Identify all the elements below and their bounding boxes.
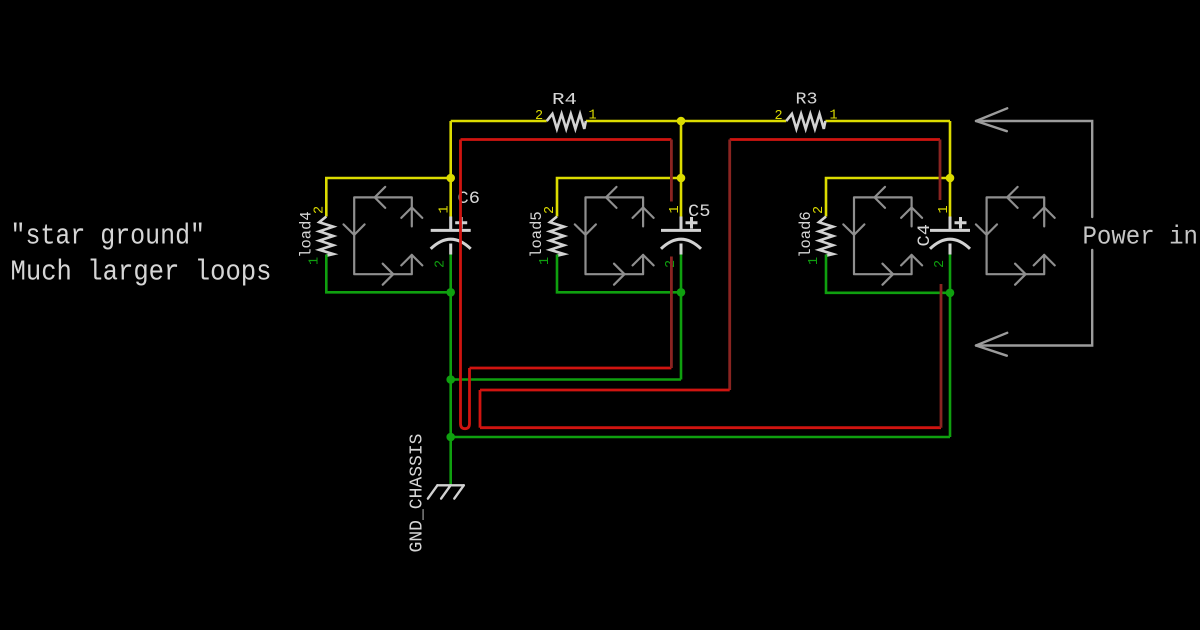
svg-text:2: 2 [535,109,543,124]
svg-text:Much larger loops: Much larger loops [11,256,272,289]
junction yellow on bus above C5 [677,117,686,126]
svg-text:load6: load6 [797,211,815,258]
wire red loop2 middle horizontal [480,389,730,392]
svg-text:GND_CHASSIS: GND_CHASSIS [408,434,428,553]
resistor R3 [786,114,825,129]
annotation star ground [11,220,206,253]
junction green load6/C4 [946,289,955,298]
svg-text:1: 1 [589,108,597,123]
svg-text:load5: load5 [528,211,546,258]
wire yellow load5 top [557,178,681,217]
junction green star mid [446,375,455,384]
annotation much larger loops [11,256,272,289]
wire yellow C5 drop [680,121,683,217]
resistor load4 [319,217,333,256]
svg-text:R4: R4 [552,91,577,110]
svg-text:2: 2 [933,260,948,268]
wire red loop1 left with U-turn [461,140,470,429]
wire green load4 bottom [326,255,450,293]
svg-text:2: 2 [434,260,449,268]
wire red loop1 top [461,138,672,141]
svg-text:1: 1 [937,205,952,213]
wire red loop2 stub below C4 [940,284,943,428]
svg-text:Power in: Power in [1083,222,1199,252]
loop symbol load5 [575,187,654,285]
wire red loop2 short left vertical [479,390,482,428]
capacitor C4 [930,217,970,255]
svg-text:1: 1 [438,205,453,213]
junction green load5/C5 [677,288,686,297]
svg-text:C4: C4 [915,224,935,247]
wire red loop2 bottom horizontal [480,426,941,429]
resistor load5 [550,217,564,256]
ground GND_CHASSIS symbol [428,485,464,498]
junction yellow at load6/C4 [946,174,955,183]
svg-text:2: 2 [312,206,327,214]
wire green C6 down to ground [449,255,452,485]
svg-text:load4: load4 [298,211,316,258]
wire red loop1 stub below C5 [670,257,673,369]
wire green load5 bottom [557,255,681,293]
svg-text:C5: C5 [688,202,711,222]
svg-text:2: 2 [543,206,558,214]
svg-text:1: 1 [807,257,822,265]
loop symbol load6 [843,187,922,285]
svg-text:1: 1 [307,257,322,265]
capacitor C5 [661,217,701,255]
wire red loop2 top [730,138,940,141]
wire yellow top bus [451,120,950,123]
junction yellow at load4/C6 [446,174,455,183]
junction yellow at load5/C5 [677,174,686,183]
resistor R4 [547,114,586,129]
wire green C4 down [949,255,952,438]
wire red loop1 lower horizontal [470,367,672,370]
loop symbol power source [976,187,1055,285]
svg-text:1: 1 [538,257,553,265]
wire green load6 bottom [826,255,950,293]
svg-text:1: 1 [830,108,838,123]
capacitor C6 [431,217,471,255]
wire yellow load6 top [826,178,950,217]
svg-text:2: 2 [775,109,783,124]
junction green load4/C6 [446,288,455,297]
wire red loop2 left vertical [728,140,731,391]
wire green C5 down [680,255,683,380]
wire yellow right drop to C4 [949,121,952,217]
wire green star link bottom [451,436,950,439]
power bracket with arrows [976,108,1092,355]
wire red loop1 stub above C5 [670,140,673,202]
wire red loop2 stub above C4 [939,140,942,201]
svg-text:2: 2 [812,206,827,214]
wire yellow left drop to C6 [449,121,452,217]
junction green star bottom [446,433,455,442]
svg-text:"star ground": "star ground" [11,220,206,253]
resistor load6 [819,217,833,256]
loop symbol load4 [344,187,423,285]
svg-text:1: 1 [668,205,683,213]
svg-text:R3: R3 [796,91,818,110]
wire yellow load4 top [326,178,450,217]
wire green star link mid [451,378,681,381]
